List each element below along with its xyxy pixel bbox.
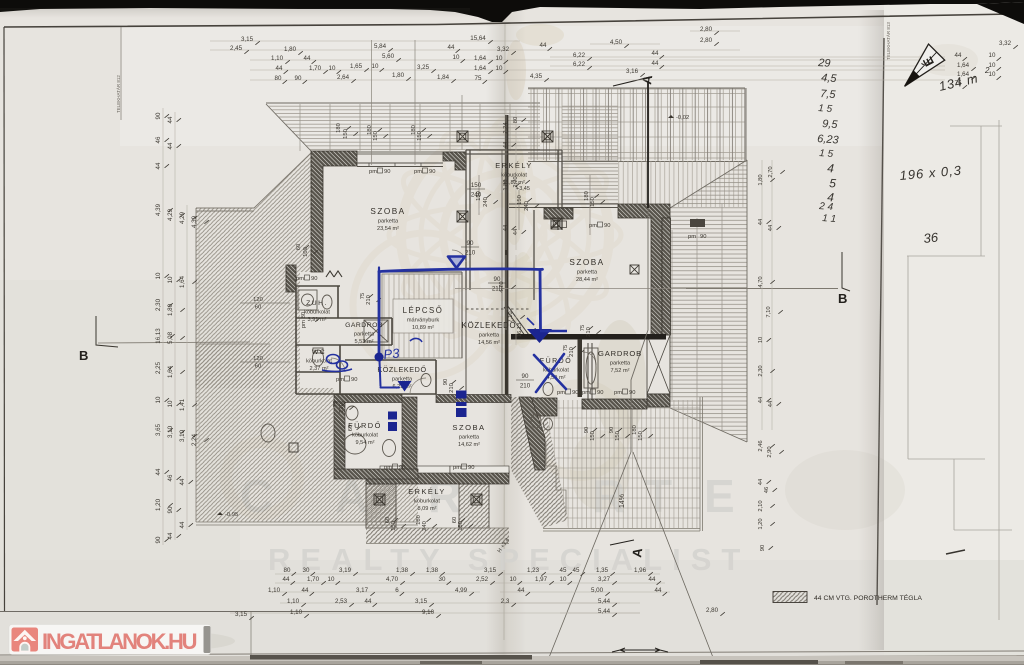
- svg-text:90: 90: [760, 545, 766, 551]
- svg-text:1,10: 1,10: [268, 587, 281, 594]
- lower terrace grid: [543, 400, 700, 528]
- svg-text:23,54 m²: 23,54 m²: [377, 226, 399, 232]
- svg-text:90: 90: [604, 223, 610, 229]
- svg-text:3,10: 3,10: [167, 425, 174, 438]
- svg-text:10: 10: [155, 396, 162, 403]
- svg-text:44: 44: [540, 42, 547, 49]
- svg-text:2 4: 2 4: [818, 201, 834, 213]
- svg-text:P3: P3: [383, 345, 401, 362]
- svg-text:1,20: 1,20: [155, 498, 162, 511]
- svg-text:10: 10: [328, 576, 335, 583]
- bottom-left roof hatch: [196, 344, 270, 388]
- watermark ornament: [226, 119, 626, 514]
- closet X right: [647, 335, 670, 394]
- svg-text:90: 90: [629, 390, 635, 396]
- svg-text:14,56 m²: 14,56 m²: [478, 340, 500, 346]
- stairs boundary / corridor: [380, 250, 466, 394]
- svg-text:210: 210: [465, 250, 476, 257]
- svg-text:90: 90: [167, 506, 174, 513]
- section A line: [647, 82, 649, 208]
- svg-text:90: 90: [494, 276, 501, 283]
- svg-text:3,10: 3,10: [179, 429, 186, 442]
- svg-text:5,84: 5,84: [374, 43, 387, 50]
- svg-text:210: 210: [339, 403, 345, 413]
- svg-text:46: 46: [155, 136, 162, 143]
- svg-text:10: 10: [496, 65, 503, 72]
- dimension guide lines bottom: [230, 574, 670, 613]
- svg-text:pm: pm: [453, 465, 461, 471]
- right sheet edges: [907, 120, 1012, 620]
- svg-text:10: 10: [989, 71, 996, 78]
- svg-text:2,30: 2,30: [758, 365, 764, 376]
- svg-text:2,70: 2,70: [768, 166, 774, 177]
- svg-text:1,38: 1,38: [426, 567, 439, 574]
- svg-text:7,10: 7,10: [766, 306, 772, 317]
- scanner bottom strip: [0, 656, 1024, 665]
- svg-text:2,46: 2,46: [758, 440, 764, 451]
- heavy vertical wall x506: [505, 115, 508, 402]
- svg-text:parketta: parketta: [459, 435, 480, 441]
- svg-text:150: 150: [373, 131, 379, 141]
- svg-text:1,10: 1,10: [271, 55, 284, 62]
- svg-text:10: 10: [758, 337, 764, 343]
- svg-text:10: 10: [167, 276, 174, 283]
- scanner black band top: [0, 0, 1024, 22]
- svg-text:44: 44: [503, 141, 509, 148]
- svg-text:44: 44: [655, 587, 662, 594]
- svg-text:1 5: 1 5: [819, 148, 834, 160]
- svg-text:9,5: 9,5: [822, 118, 839, 131]
- blue triangle small (kozlekedo): [398, 381, 412, 392]
- svg-text:100: 100: [303, 247, 309, 257]
- svg-text:10: 10: [372, 63, 379, 70]
- svg-text:44: 44: [155, 468, 162, 475]
- svg-text:ERKÉLY: ERKÉLY: [495, 161, 533, 170]
- svg-text:10: 10: [155, 272, 162, 279]
- svg-text:14%: 14%: [619, 494, 626, 508]
- svg-text:44: 44: [758, 478, 764, 485]
- svg-text:240: 240: [422, 521, 428, 531]
- svg-text:44: 44: [304, 55, 311, 62]
- svg-text:2,10: 2,10: [758, 500, 764, 511]
- svg-text:9,10: 9,10: [422, 609, 435, 616]
- svg-text:pm: pm: [369, 169, 377, 175]
- svg-text:80: 80: [284, 567, 291, 574]
- watermark text: [240, 470, 750, 577]
- svg-text:5,53 m²: 5,53 m²: [355, 339, 374, 345]
- fixtures: [261, 290, 598, 457]
- svg-text:5,44: 5,44: [598, 598, 611, 605]
- svg-text:7,5: 7,5: [820, 88, 837, 101]
- svg-text:15,64: 15,64: [470, 35, 486, 42]
- svg-text:köburkolat: köburkolat: [352, 433, 378, 439]
- svg-text:3,15: 3,15: [241, 36, 254, 43]
- svg-text:5,60: 5,60: [382, 53, 395, 60]
- svg-text:3,17: 3,17: [356, 587, 369, 594]
- svg-text:2,24: 2,24: [191, 433, 198, 446]
- blue triangle big (right): [527, 329, 552, 343]
- svg-text:150: 150: [343, 129, 349, 139]
- svg-text:45: 45: [573, 567, 580, 574]
- svg-text:4,70: 4,70: [758, 276, 764, 287]
- balcony railing hatch: [366, 528, 509, 543]
- svg-text:1,80: 1,80: [167, 303, 174, 316]
- balcony 8.09 columns: [366, 484, 396, 528]
- south wall gardrob: [582, 399, 647, 409]
- svg-text:90: 90: [429, 169, 435, 175]
- svg-text:11,82 m²: 11,82 m²: [503, 180, 525, 186]
- svg-text:LÉPCSŐ: LÉPCSŐ: [403, 306, 444, 315]
- svg-text:44: 44: [652, 60, 659, 67]
- svg-text:FÜRDŐ: FÜRDŐ: [348, 421, 382, 430]
- svg-text:44: 44: [302, 587, 309, 594]
- svg-text:90: 90: [700, 234, 706, 240]
- svg-text:44: 44: [448, 44, 455, 51]
- wall x579: [578, 339, 583, 397]
- interior partitions left block: [296, 286, 436, 394]
- wall W1 top-left L: [311, 151, 357, 272]
- left roof wedge (diagonal hatch): [196, 152, 312, 388]
- svg-text:44: 44: [503, 224, 509, 231]
- svg-text:3,19: 3,19: [339, 567, 352, 574]
- svg-text:10: 10: [496, 55, 503, 62]
- svg-text:3,65: 3,65: [155, 423, 162, 436]
- svg-text:2,80: 2,80: [700, 37, 713, 44]
- svg-text:90: 90: [295, 75, 302, 82]
- ingatlanok.hu logo: [9, 625, 211, 655]
- svg-text:6,23: 6,23: [817, 133, 840, 147]
- svg-text:pm: pm: [557, 390, 565, 396]
- svg-text:30: 30: [303, 567, 310, 574]
- svg-text:4,35: 4,35: [530, 73, 543, 80]
- svg-text:GARDROB: GARDROB: [345, 322, 383, 329]
- svg-text:1,20: 1,20: [758, 518, 764, 529]
- pergola top (posts and rails): [528, 89, 745, 160]
- svg-text:E: E: [704, 470, 737, 522]
- stair treads: [384, 274, 459, 358]
- svg-text:44: 44: [768, 400, 774, 407]
- svg-text:pm: pm: [414, 169, 422, 175]
- erkely top walls: [466, 150, 562, 300]
- svg-text:44: 44: [758, 396, 764, 403]
- svg-text:60: 60: [255, 364, 261, 370]
- wall block W2: [443, 152, 466, 170]
- svg-text:7,52 m²: 7,52 m²: [611, 368, 630, 374]
- svg-text:44: 44: [155, 162, 162, 169]
- svg-text:150: 150: [615, 431, 621, 441]
- svg-text:1,70: 1,70: [307, 576, 320, 583]
- blue pen rectangle: [379, 268, 543, 388]
- svg-text:4: 4: [827, 161, 835, 175]
- svg-text:4,5: 4,5: [821, 72, 838, 85]
- svg-text:30: 30: [439, 576, 446, 583]
- svg-text:SZOBA: SZOBA: [452, 423, 485, 432]
- svg-text:2,30: 2,30: [155, 298, 162, 311]
- svg-text:14,62 m²: 14,62 m²: [458, 442, 480, 448]
- svg-text:44 CM VTG. POROTHERM TÉGLA: 44 CM VTG. POROTHERM TÉGLA: [814, 593, 922, 602]
- svg-text:+3,45: +3,45: [516, 186, 530, 192]
- gardrob752 left wall: [588, 343, 592, 399]
- svg-text:1,80: 1,80: [758, 174, 764, 185]
- svg-text:45: 45: [560, 567, 567, 574]
- main dark corridor wall W5: [511, 334, 666, 340]
- svg-text:210: 210: [492, 286, 503, 293]
- svg-text:TELEKHATÁR 813: TELEKHATÁR 813: [885, 22, 891, 60]
- blue triangle top: [448, 257, 465, 269]
- svg-text:1,38: 1,38: [396, 567, 409, 574]
- svg-text:parketta: parketta: [378, 219, 399, 225]
- svg-text:4,39: 4,39: [155, 203, 162, 216]
- top wall windows: [357, 163, 443, 167]
- svg-text:3,15: 3,15: [415, 598, 428, 605]
- column markers: [457, 131, 468, 142]
- vertical dim guides left: [163, 108, 199, 545]
- svg-text:44: 44: [365, 598, 372, 605]
- svg-text:1,41: 1,41: [179, 398, 186, 411]
- svg-text:5,08: 5,08: [167, 331, 174, 344]
- svg-text:4,70: 4,70: [386, 576, 399, 583]
- svg-text:36: 36: [923, 229, 940, 246]
- svg-text:210: 210: [569, 347, 575, 357]
- svg-text:80: 80: [275, 75, 282, 82]
- furdo954 walls: [334, 395, 402, 403]
- svg-text:TELEKHATÁR 812: TELEKHATÁR 812: [115, 75, 121, 113]
- svg-text:B: B: [79, 348, 88, 363]
- svg-text:2: 2: [984, 66, 990, 75]
- svg-text:GARDROB: GARDROB: [598, 349, 642, 358]
- svg-text:44: 44: [167, 142, 174, 149]
- svg-text:44: 44: [649, 576, 656, 583]
- svg-text:-0,02: -0,02: [676, 115, 689, 121]
- svg-text:10: 10: [989, 52, 996, 59]
- svg-text:1,84: 1,84: [437, 74, 450, 81]
- szoba1462 bottom wall: [366, 471, 509, 484]
- svg-text:3,15: 3,15: [484, 567, 497, 574]
- svg-text:1 5: 1 5: [818, 103, 833, 115]
- svg-text:16,13: 16,13: [517, 323, 523, 338]
- svg-text:150: 150: [517, 195, 523, 205]
- svg-text:4,29: 4,29: [167, 208, 174, 221]
- svg-text:90: 90: [467, 240, 474, 247]
- svg-text:-0,95: -0,95: [225, 512, 238, 518]
- svg-text:pm: pm: [384, 465, 392, 471]
- svg-text:parketta: parketta: [610, 361, 631, 367]
- svg-text:5,00: 5,00: [591, 587, 604, 594]
- svg-text:2,45: 2,45: [230, 45, 243, 52]
- svg-text:4,29: 4,29: [179, 211, 186, 224]
- svg-text:210: 210: [586, 327, 592, 337]
- svg-text:pm: pm: [589, 223, 597, 229]
- svg-text:1,70: 1,70: [309, 65, 322, 72]
- svg-text:90: 90: [311, 276, 317, 282]
- svg-text:44: 44: [955, 52, 962, 59]
- svg-text:44: 44: [179, 478, 186, 485]
- svg-text:44: 44: [513, 228, 519, 235]
- svg-text:pm: pm: [336, 377, 344, 383]
- svg-text:8,09 m²: 8,09 m²: [418, 506, 437, 512]
- north compass: [905, 44, 945, 86]
- svg-text:6,22: 6,22: [573, 52, 586, 59]
- blue scribbles wc: [322, 338, 422, 371]
- deck top-left (horizontal planks): [266, 103, 540, 152]
- svg-text:90: 90: [351, 377, 357, 383]
- svg-text:75: 75: [475, 75, 482, 82]
- szoba1462 corner diag wall: [519, 397, 545, 470]
- svg-text:1,64: 1,64: [957, 62, 970, 69]
- svg-text:80: 80: [513, 117, 519, 123]
- svg-text:120: 120: [253, 297, 263, 303]
- svg-text:1,97: 1,97: [535, 576, 548, 583]
- svg-text:3,91 m²: 3,91 m²: [308, 317, 327, 323]
- svg-text:3,32: 3,32: [999, 40, 1012, 47]
- svg-text:1,64: 1,64: [179, 275, 186, 288]
- svg-text:46: 46: [764, 487, 770, 493]
- svg-text:3,27: 3,27: [598, 576, 611, 583]
- svg-text:44: 44: [283, 576, 290, 583]
- svg-text:1 1: 1 1: [822, 213, 837, 225]
- svg-text:10,89 m²: 10,89 m²: [412, 325, 434, 331]
- svg-text:1,64: 1,64: [474, 65, 487, 72]
- svg-text:28,44 m²: 28,44 m²: [576, 277, 598, 283]
- svg-text:9,54 m²: 9,54 m²: [356, 440, 375, 446]
- svg-text:120: 120: [253, 356, 263, 362]
- svg-text:INGATLANOK.HU: INGATLANOK.HU: [42, 629, 197, 654]
- svg-text:44: 44: [768, 224, 774, 231]
- blue fixture squares: [456, 391, 467, 399]
- svg-text:150: 150: [417, 131, 423, 141]
- svg-text:3,16: 3,16: [626, 68, 639, 75]
- svg-text:210: 210: [449, 383, 455, 393]
- svg-text:4,39: 4,39: [191, 215, 198, 228]
- svg-text:90: 90: [399, 465, 405, 471]
- svg-text:150: 150: [458, 521, 464, 531]
- svg-text:márványburk: márványburk: [407, 318, 440, 324]
- blue dot node: [375, 353, 384, 362]
- svg-text:44: 44: [758, 218, 764, 225]
- svg-text:4,50: 4,50: [610, 39, 623, 46]
- svg-text:10: 10: [510, 576, 517, 583]
- svg-text:60: 60: [255, 305, 261, 311]
- blue X over bath: [534, 354, 566, 392]
- svg-text:5: 5: [829, 176, 837, 190]
- svg-text:16,13: 16,13: [155, 328, 162, 344]
- svg-text:3,25: 3,25: [417, 64, 430, 71]
- svg-text:150: 150: [391, 521, 397, 531]
- svg-text:90: 90: [384, 169, 390, 175]
- svg-text:180: 180: [336, 123, 342, 133]
- posts above wall W4: [618, 161, 670, 206]
- svg-text:ERKÉLY: ERKÉLY: [408, 487, 446, 496]
- svg-text:3,15: 3,15: [235, 611, 248, 618]
- svg-text:5,44: 5,44: [598, 608, 611, 615]
- dimension guide lines top: [210, 31, 945, 80]
- svg-text:150: 150: [590, 431, 596, 441]
- svg-text:köburkolat: köburkolat: [304, 310, 330, 316]
- wall W4 right L: [618, 204, 670, 335]
- svg-text:2,53: 2,53: [335, 598, 348, 605]
- chimney block: [286, 265, 296, 292]
- svg-text:90: 90: [155, 536, 162, 543]
- svg-text:1,35: 1,35: [596, 567, 609, 574]
- svg-text:köburkolat: köburkolat: [414, 499, 440, 505]
- svg-text:150: 150: [590, 197, 596, 207]
- svg-text:44: 44: [167, 532, 174, 539]
- roof planks right (E): [670, 160, 747, 442]
- svg-text:köburkolat: köburkolat: [501, 173, 527, 179]
- svg-text:pm: pm: [688, 234, 696, 240]
- svg-text:1,10: 1,10: [287, 598, 300, 605]
- svg-text:210: 210: [366, 295, 372, 305]
- szoba1462 top wall: [436, 395, 511, 403]
- svg-text:1,64: 1,64: [474, 55, 487, 62]
- svg-text:2,3: 2,3: [501, 598, 510, 605]
- svg-text:pm: pm: [582, 390, 590, 396]
- svg-text:240: 240: [483, 197, 489, 207]
- lower terrace dense hatch: [511, 397, 568, 528]
- svg-text:1,80: 1,80: [392, 72, 405, 79]
- svg-text:1,10: 1,10: [290, 609, 303, 616]
- svg-text:WC: WC: [312, 349, 326, 356]
- handwritten column: [817, 57, 840, 225]
- svg-text:44: 44: [276, 65, 283, 72]
- svg-text:240: 240: [471, 192, 482, 199]
- svg-text:10: 10: [453, 54, 460, 61]
- svg-text:3,32: 3,32: [497, 46, 510, 53]
- section B markers: [96, 316, 118, 347]
- svg-text:1,23: 1,23: [527, 567, 540, 574]
- svg-text:10: 10: [560, 576, 567, 583]
- svg-text:pm: pm: [296, 276, 304, 282]
- svg-text:1,80: 1,80: [284, 46, 297, 53]
- svg-text:ZUH.: ZUH.: [306, 300, 328, 307]
- svg-text:2,64: 2,64: [337, 74, 350, 81]
- svg-text:90: 90: [468, 465, 474, 471]
- svg-text:KÖZLEKEDŐ: KÖZLEKEDŐ: [377, 365, 426, 374]
- border frame: [4, 14, 1013, 27]
- svg-text:KÖZLEKEDŐ: KÖZLEKEDŐ: [462, 321, 517, 330]
- svg-text:2,25: 2,25: [155, 361, 162, 374]
- svg-text:parketta: parketta: [354, 332, 375, 338]
- svg-text:pm: pm: [614, 390, 622, 396]
- svg-text:60: 60: [296, 244, 302, 250]
- pen dash: [946, 550, 965, 554]
- pergola-to-hip triangle: [670, 161, 747, 207]
- svg-text:46: 46: [167, 474, 174, 481]
- svg-text:240: 240: [524, 201, 530, 211]
- svg-text:90: 90: [597, 390, 603, 396]
- svg-text:2,80: 2,80: [706, 607, 719, 614]
- svg-text:210: 210: [520, 383, 531, 390]
- svg-text:2,52: 2,52: [476, 576, 489, 583]
- svg-text:44: 44: [652, 50, 659, 57]
- svg-text:29: 29: [817, 57, 831, 70]
- wall below closet: [647, 394, 670, 407]
- svg-text:2,80: 2,80: [700, 26, 713, 33]
- svg-text:44: 44: [518, 587, 525, 594]
- svg-text:6,22: 6,22: [573, 61, 586, 68]
- svg-text:parketta: parketta: [577, 270, 598, 276]
- svg-text:parketta: parketta: [479, 333, 500, 339]
- svg-text:150: 150: [471, 182, 482, 189]
- svg-text:44: 44: [167, 116, 174, 123]
- svg-text:B: B: [838, 291, 847, 306]
- svg-text:6: 6: [395, 587, 399, 594]
- svg-text:10: 10: [329, 65, 336, 72]
- svg-text:150: 150: [638, 431, 644, 441]
- svg-text:90: 90: [155, 112, 162, 119]
- legend porotherm: [773, 592, 807, 603]
- svg-text:90: 90: [572, 390, 578, 396]
